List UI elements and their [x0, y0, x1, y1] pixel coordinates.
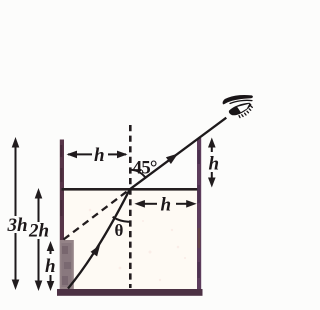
svg-text:h: h — [94, 145, 105, 166]
left h arrow (block height) — [50, 249, 52, 254]
incident ray arrowhead — [91, 245, 101, 257]
svg-text:θ: θ — [115, 221, 124, 240]
shaded block (image region) bottom-left — [60, 240, 74, 290]
normal (dashed vertical line) — [129, 125, 132, 288]
incident ray in water — [68, 189, 130, 288]
tank left wall — [60, 140, 64, 290]
refracted ray to eye — [130, 118, 227, 190]
lower h measurement arrow (normal to right wall) — [143, 203, 157, 205]
water surface line — [62, 188, 198, 191]
eye of observer — [223, 96, 252, 118]
tank bottom — [57, 289, 203, 296]
svg-text:h: h — [161, 195, 172, 216]
svg-text:h: h — [45, 256, 56, 277]
top h measurement arrow (left wall to normal) — [75, 153, 92, 155]
45-degree angle arc — [130, 170, 146, 178]
svg-text:2h: 2h — [28, 221, 49, 242]
svg-text:h: h — [209, 154, 220, 175]
right-side h arrow (wall top above surface) — [211, 146, 213, 152]
2h measurement arrow (water depth) — [38, 196, 40, 222]
refracted ray arrowhead — [166, 154, 178, 165]
tank right wall — [197, 138, 201, 296]
tank interior (water region tint) — [63, 190, 197, 290]
theta angle arc — [113, 217, 130, 222]
svg-text:3h: 3h — [7, 215, 28, 236]
svg-text:45°: 45° — [133, 158, 157, 179]
virtual ray (dashed) from wall to refraction point — [64, 191, 128, 240]
3h measurement arrow (total height) — [15, 145, 17, 216]
